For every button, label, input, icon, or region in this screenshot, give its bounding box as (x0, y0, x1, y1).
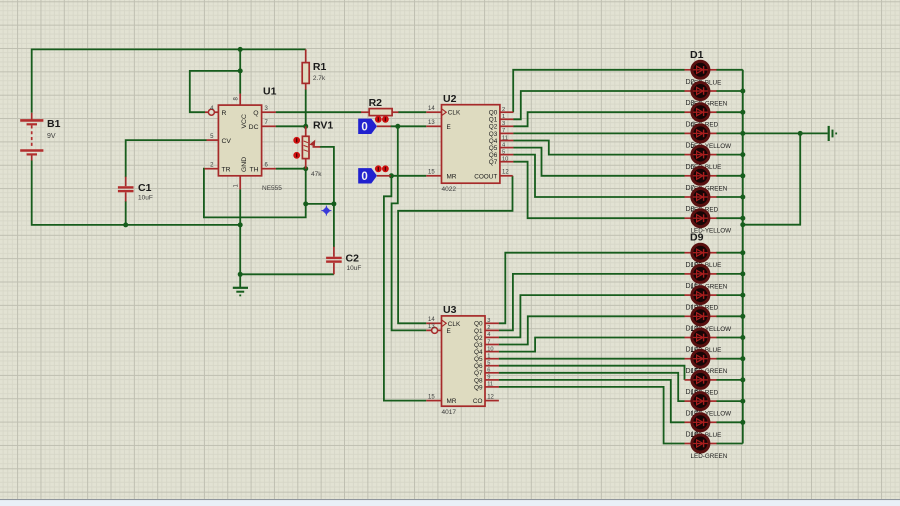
svg-text:9V: 9V (47, 133, 56, 140)
wire: bus to ground terminal (743, 132, 828, 134)
svg-text:E: E (447, 124, 451, 131)
wire: LED D3 cathode to bus (716, 111, 743, 113)
svg-text:10: 10 (487, 346, 493, 352)
wire: C2 bottom return to ground net (240, 273, 334, 275)
probe toggle buttons (375, 165, 382, 172)
wire: U3 Q4 to LED D13 (499, 338, 685, 352)
wire: LED D4 cathode to bus (716, 132, 743, 134)
svg-text:D1: D1 (690, 49, 704, 61)
wire: LED D5 cathode to bus (716, 154, 743, 156)
svg-text:TR: TR (222, 167, 231, 174)
svg-text:LED-GREEN: LED-GREEN (691, 453, 728, 460)
svg-text:4: 4 (502, 142, 505, 148)
svg-text:10: 10 (502, 157, 508, 163)
svg-text:MR: MR (447, 398, 457, 405)
svg-text:1: 1 (502, 114, 505, 120)
svg-text:VCC: VCC (241, 114, 248, 128)
wire: U3 Q2 to LED D11 (499, 295, 685, 337)
wire: U3 Q9 to LED D18 (499, 387, 685, 444)
LED D4 (685, 121, 732, 149)
svg-text:DC: DC (249, 124, 259, 131)
svg-text:E: E (447, 328, 451, 335)
wire: U3 Q0 to LED D9 (499, 253, 685, 324)
svg-text:U2: U2 (443, 93, 457, 105)
svg-text:Q2: Q2 (489, 124, 498, 131)
wire: LED D17 cathode to bus (716, 421, 743, 423)
svg-text:R2: R2 (369, 97, 383, 109)
wire: MR net down to U3 MR pin 15 (384, 176, 426, 401)
resistor R2 (361, 97, 398, 116)
junction C1/ground rail (123, 222, 128, 227)
svg-text:Q0: Q0 (489, 110, 498, 117)
wire: 555 TR pin 2 loop to RV1 bottom net (204, 169, 306, 218)
op IC U1 NE555 (205, 86, 283, 193)
svg-text:U1: U1 (263, 86, 277, 98)
wire: C1 bottom to ground rail (125, 201, 127, 225)
wire: down to C2 top (333, 204, 335, 247)
svg-text:Q3: Q3 (489, 131, 498, 138)
svg-text:2: 2 (502, 107, 505, 113)
svg-text:Q2: Q2 (474, 335, 483, 342)
svg-text:4: 4 (487, 332, 490, 338)
svg-text:CLK: CLK (448, 321, 461, 328)
capacitor C1 (118, 177, 153, 202)
wire: U2 Q0 to LED D1 (513, 70, 684, 112)
svg-text:Q9: Q9 (474, 384, 483, 391)
LED D6 (685, 164, 728, 193)
wire: U3 Q7 to LED D16 (499, 373, 685, 401)
svg-text:11: 11 (502, 135, 508, 141)
svg-text:Q: Q (253, 110, 258, 117)
svg-text:CLK: CLK (448, 110, 461, 117)
svg-text:COOUT: COOUT (474, 173, 497, 180)
wire: LED D1 cathode to bus (716, 69, 743, 71)
wire: R1 bottom to DC node (305, 89, 307, 126)
wire: U3 Q6 to LED D15 (499, 366, 685, 380)
svg-text:15: 15 (428, 394, 435, 400)
svg-text:12: 12 (502, 170, 509, 176)
LED D10 (685, 262, 728, 291)
LED D17 (685, 410, 722, 439)
svg-text:10uF: 10uF (347, 265, 362, 272)
wire: 555 CV pin 5 to C1 top (126, 140, 207, 177)
wire: LED D14 cathode to bus (716, 358, 743, 360)
potentiometer RV1 (293, 120, 333, 179)
svg-text:Q0: Q0 (474, 321, 483, 328)
LED D16 (685, 389, 732, 418)
LED D12 (685, 304, 732, 333)
junction MR net branch (389, 173, 394, 178)
LED D5 (685, 143, 722, 172)
svg-text:Q6: Q6 (489, 152, 498, 159)
RV1 actuator buttons (293, 137, 300, 144)
LED D8 (685, 206, 732, 235)
LED D1 (685, 49, 722, 87)
junction DC/R1/RV1 (303, 124, 308, 129)
resistor R1 (302, 49, 326, 89)
svg-text:4022: 4022 (442, 186, 457, 193)
svg-text:Q1: Q1 (489, 117, 498, 124)
wire: LED D11 cathode to bus (716, 294, 743, 296)
svg-text:13: 13 (428, 324, 435, 330)
svg-text:Q7: Q7 (474, 370, 483, 377)
svg-text:Q5: Q5 (489, 145, 498, 152)
wire: top rail down to 555 VCC pin 8 (239, 49, 241, 93)
svg-text:15: 15 (428, 170, 435, 176)
battery B1 (20, 113, 60, 161)
junction wiper link / C2 branch (331, 201, 336, 206)
bottom window edge (0, 499, 900, 500)
svg-text:R1: R1 (313, 61, 327, 73)
junctions on cathode bus (740, 89, 745, 94)
ground symbol (LED cathode net, rotated) (829, 126, 837, 141)
svg-text:Q6: Q6 (474, 363, 483, 370)
wire: LED D12 cathode to bus (716, 315, 743, 317)
svg-text:3: 3 (487, 318, 490, 324)
svg-text:C1: C1 (138, 182, 152, 194)
wire: LED D7 cathode to bus (716, 196, 743, 198)
wire: U2 Q1 to LED D2 (513, 91, 684, 119)
wire: LED cathode bus vertical (742, 70, 744, 444)
wire: LED D6 cathode to bus (716, 175, 743, 177)
wire: 555 TH pin 6 to RV1 node (276, 168, 306, 170)
svg-text:13: 13 (428, 120, 435, 126)
junction C2 return / GND (238, 272, 243, 277)
counter U2 4022 (426, 93, 513, 193)
logic state probe 2 (358, 165, 390, 183)
svg-text:D9: D9 (690, 232, 704, 244)
LED D2 (685, 79, 728, 108)
svg-text:B1: B1 (47, 118, 61, 130)
svg-text:11: 11 (487, 382, 493, 388)
junction TH/RV1 (303, 166, 308, 171)
wire: LED D16 cathode to bus (716, 400, 743, 402)
svg-text:5: 5 (487, 361, 490, 367)
junction E net branch (395, 124, 400, 129)
wire: logic state 2 to U2 MR pin 15 (390, 175, 426, 177)
svg-text:CV: CV (222, 138, 232, 145)
LED D7 (685, 185, 719, 214)
wire: 555 GND pin 1 down to ground (239, 189, 241, 287)
wire: U3 Q5 to LED D14 (499, 358, 685, 360)
wire: battery + to top rail to R1 (32, 49, 306, 112)
wire: wiper link horizontal (306, 203, 334, 205)
wire: U2 COOUT pin 12 to U3 CLK pin 14 (398, 176, 512, 323)
wire: E net down to U3 E pin 13 (392, 126, 427, 330)
LED D11 (685, 283, 719, 312)
svg-text:C2: C2 (346, 253, 360, 265)
svg-text:Q4: Q4 (474, 349, 483, 356)
svg-text:2: 2 (487, 325, 490, 331)
ground symbol (555/C2 net) (233, 288, 248, 296)
svg-text:0: 0 (361, 171, 367, 183)
junction R branch (238, 68, 243, 73)
svg-text:7: 7 (502, 128, 505, 134)
origin marker (321, 206, 331, 216)
wire: U2 Q5 to LED D6 (513, 148, 684, 176)
wire: battery - bottom rail to GND net (32, 160, 241, 225)
LED D18 (685, 432, 728, 461)
svg-text:5: 5 (502, 149, 505, 155)
wire: LED D10 cathode to bus (716, 273, 743, 275)
svg-text:R: R (222, 110, 227, 117)
wire: U3 Q8 to LED D17 (499, 380, 685, 422)
svg-text:Q7: Q7 (489, 159, 498, 166)
wire: LED D2 cathode to bus (716, 90, 743, 92)
junction bottom rail / GND (238, 222, 243, 227)
LED D15 (685, 368, 719, 397)
LED D14 (685, 347, 728, 376)
svg-text:0: 0 (361, 122, 367, 134)
svg-text:Q4: Q4 (489, 138, 498, 145)
logic state probe 1 (358, 116, 390, 134)
capacitor C2 (326, 247, 361, 275)
wire: U2 Q4 to LED D5 (513, 141, 684, 155)
LED D9 (685, 232, 722, 270)
svg-text:14: 14 (428, 106, 435, 112)
wire: LED D13 cathode to bus (716, 337, 743, 339)
svg-text:6: 6 (487, 368, 490, 374)
wire: U3 Q3 to LED D12 (499, 316, 685, 344)
svg-text:Q5: Q5 (474, 356, 483, 363)
svg-text:NE555: NE555 (262, 185, 282, 192)
svg-text:47k: 47k (311, 171, 322, 178)
svg-text:U3: U3 (443, 304, 457, 316)
wire: LED D8 cathode to bus (716, 217, 743, 219)
svg-text:1: 1 (487, 354, 490, 360)
svg-text:TH: TH (249, 167, 258, 174)
wire: U2 Q7 to LED D8 (513, 162, 684, 219)
svg-text:Q1: Q1 (474, 328, 483, 335)
wire: logic state 1 to U2 E pin 13 (390, 125, 426, 127)
svg-text:10uF: 10uF (138, 195, 153, 202)
svg-text:14: 14 (428, 317, 435, 323)
svg-text:4017: 4017 (442, 409, 457, 416)
svg-text:MR: MR (447, 173, 457, 180)
wire: LED D9 cathode to bus (716, 252, 743, 254)
svg-text:CO: CO (473, 398, 483, 405)
svg-text:12: 12 (487, 394, 494, 400)
svg-text:7: 7 (487, 339, 490, 345)
probe toggle buttons (375, 116, 382, 123)
wire: TH junction down (305, 169, 307, 204)
wire: U3 Q1 to LED D10 (499, 274, 685, 331)
svg-text:Q3: Q3 (474, 342, 483, 349)
svg-text:RV1: RV1 (313, 120, 333, 132)
wire: U2 Q3 to LED D4 (513, 132, 684, 134)
wire: LED D18 cathode to bus (716, 443, 743, 445)
svg-text:Q8: Q8 (474, 377, 483, 384)
svg-text:GND: GND (241, 157, 248, 172)
wire: U2 Q6 to LED D7 (513, 155, 684, 197)
svg-text:2.7k: 2.7k (313, 75, 326, 82)
junction RV1 bottom / wiper link (303, 201, 308, 206)
wire: RV1 wiper down to link (320, 147, 334, 204)
svg-text:3: 3 (502, 121, 505, 127)
wire: R2 to U2 CLK pin 14 (398, 111, 426, 113)
LED D13 (685, 326, 722, 355)
wire: bus loop to ground net (743, 133, 800, 224)
wire: 555 DC pin 7 to R1/RV1 node (276, 125, 306, 127)
svg-text:9: 9 (487, 375, 490, 381)
counter U3 4017 (426, 304, 499, 416)
junction VCC top rail (238, 47, 243, 52)
junction ground wire / loop (798, 131, 803, 136)
wire: U2 Q2 to LED D3 (513, 112, 684, 126)
LED D3 (685, 100, 719, 129)
wire: LED D15 cathode to bus (716, 379, 743, 381)
wire: 555 Q pin 3 to R2 (276, 111, 362, 113)
wire: branch to 555 R pin 4 (190, 71, 240, 112)
